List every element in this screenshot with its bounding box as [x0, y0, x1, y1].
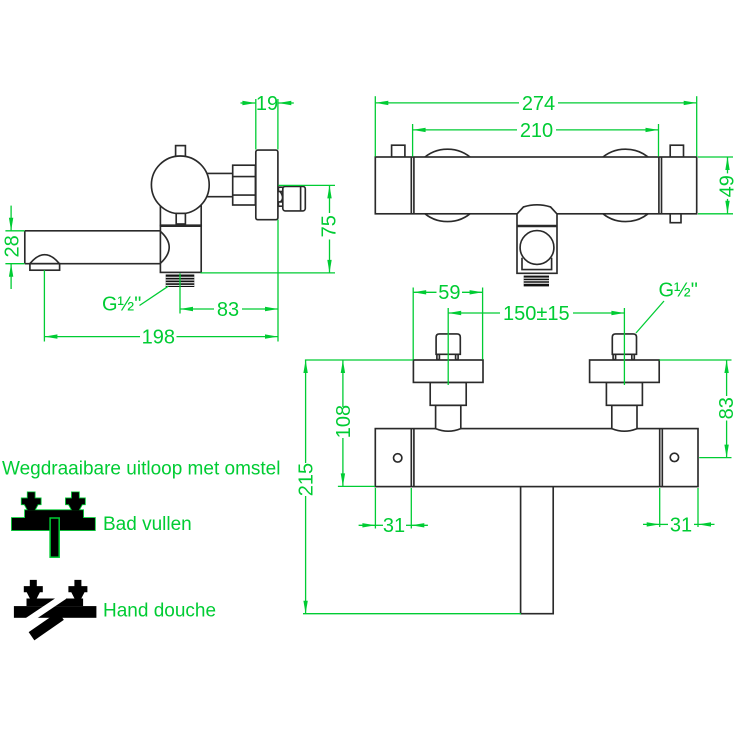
svg-text:19: 19 [256, 93, 278, 115]
svg-text:G½": G½" [102, 294, 141, 316]
svg-text:Hand douche: Hand douche [103, 601, 216, 622]
svg-text:31: 31 [383, 515, 405, 537]
svg-text:108: 108 [333, 405, 355, 438]
svg-text:G½": G½" [659, 279, 698, 301]
svg-text:274: 274 [522, 93, 555, 115]
svg-text:198: 198 [142, 327, 175, 349]
svg-text:83: 83 [217, 299, 239, 321]
svg-text:Wegdraaibare uitloop met omste: Wegdraaibare uitloop met omstel [2, 459, 280, 480]
svg-text:210: 210 [520, 120, 553, 142]
svg-text:75: 75 [319, 215, 341, 237]
svg-text:215: 215 [296, 463, 318, 496]
svg-text:28: 28 [1, 235, 23, 257]
svg-text:49: 49 [717, 175, 735, 197]
svg-text:150±15: 150±15 [503, 303, 570, 325]
svg-text:83: 83 [716, 397, 735, 419]
svg-text:31: 31 [670, 514, 692, 536]
svg-text:59: 59 [438, 282, 460, 304]
svg-text:Bad vullen: Bad vullen [103, 514, 192, 535]
